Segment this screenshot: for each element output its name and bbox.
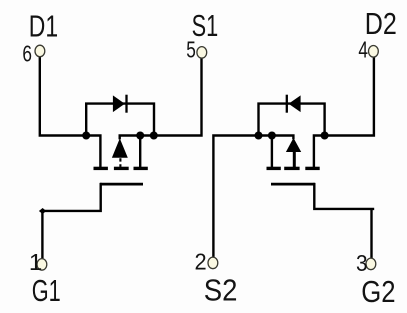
svg-text:G2: G2 — [361, 274, 395, 309]
svg-text:1: 1 — [29, 250, 42, 275]
svg-text:6: 6 — [22, 42, 32, 67]
svg-text:S2: S2 — [204, 274, 238, 308]
svg-text:2: 2 — [195, 249, 207, 275]
svg-text:5: 5 — [186, 38, 196, 63]
svg-text:D1: D1 — [29, 9, 58, 43]
svg-text:4: 4 — [358, 38, 368, 63]
svg-text:G1: G1 — [32, 273, 61, 308]
svg-text:3: 3 — [356, 250, 368, 276]
svg-text:D2: D2 — [365, 7, 397, 41]
